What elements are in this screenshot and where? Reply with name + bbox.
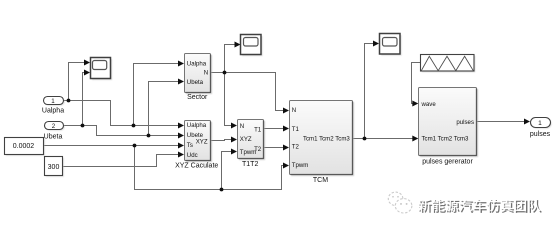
wire branch: Ubeta up to Sector input 2 <box>149 82 179 136</box>
outport 1 pulses <box>532 119 552 129</box>
wire T2: T1T2 to TCM <box>264 147 284 149</box>
svg-text:pulses: pulses <box>530 131 551 138</box>
watermark text 新能源汽车仿真团队 <box>419 200 542 213</box>
wire branch: Tcm up to Scope2 <box>365 44 374 139</box>
wire branch: N down to T1T2 input N <box>225 73 232 126</box>
node junction J1 <box>67 99 71 103</box>
svg-text:T2: T2 <box>254 146 262 153</box>
wire pulses: pulses gererator to outport <box>477 121 525 123</box>
wire XYZ: XYZ Caculate to T1T2 <box>210 140 232 141</box>
inport 2 Ubeta <box>46 123 65 131</box>
subsystem pulses gererator <box>420 89 478 157</box>
wire branch: Ts up to T1T2 Tpwm <box>222 152 232 190</box>
svg-text:Ualpha: Ualpha <box>187 61 207 68</box>
svg-text:XYZ Caculate: XYZ Caculate <box>175 162 218 169</box>
svg-text:N: N <box>292 107 296 114</box>
wire Ubeta: inport2 to XYZ Caculate <box>64 126 179 136</box>
svg-text:T1: T1 <box>292 126 300 133</box>
node junction J6 <box>220 188 224 192</box>
wire N: Sector to TCM <box>211 73 284 111</box>
node junction J4 <box>147 134 151 138</box>
node junction J5 <box>133 144 137 148</box>
watermark logo (chat bubbles) <box>388 192 412 213</box>
svg-text:1: 1 <box>538 120 542 127</box>
wire branch: Ts down and across to TCM Tpwm <box>135 146 284 190</box>
repeating sequence triangle wave source <box>422 56 476 73</box>
scope Scope2 <box>381 35 402 56</box>
wire Ts: constant 0.0002 to XYZ Caculate <box>44 145 179 147</box>
svg-text:wave: wave <box>421 101 437 108</box>
node junction J7 <box>223 71 227 75</box>
svg-text:Ts: Ts <box>187 142 193 149</box>
svg-text:Ualpha: Ualpha <box>42 107 64 114</box>
wire Tcm: TCM to pulses gererator <box>353 138 413 140</box>
wire branch: N up to Scope1 <box>225 45 236 73</box>
constant 300 <box>46 158 64 177</box>
svg-text:TCM: TCM <box>313 177 328 184</box>
scope Scope (dual input) <box>92 59 112 80</box>
wire T1: T1T2 to TCM <box>264 128 284 130</box>
node junction J2 <box>132 124 136 128</box>
wire branch: Ualpha up to Sector input 1 <box>134 64 179 126</box>
svg-text:XYZ: XYZ <box>196 139 208 146</box>
svg-text:XYZ: XYZ <box>240 136 252 143</box>
svg-text:pulses gererator: pulses gererator <box>422 158 473 165</box>
svg-text:0.0002: 0.0002 <box>13 143 35 150</box>
node junction J8 <box>363 137 367 141</box>
wire wave: triangle source to pulses gererator <box>412 63 421 104</box>
wire branch: Ubeta up to Scope input 2 <box>83 73 85 126</box>
subsystem XYZ Caculate <box>186 122 212 162</box>
svg-text:T2: T2 <box>292 144 300 151</box>
svg-text:Ubeta: Ubeta <box>44 134 63 141</box>
constant 0.0002 <box>6 139 45 156</box>
wire Ualpha: inport1 to XYZ Caculate <box>64 101 179 126</box>
svg-text:pulses: pulses <box>456 119 474 126</box>
svg-text:Ualpha: Ualpha <box>187 122 207 129</box>
svg-text:Ubeta: Ubeta <box>187 79 204 86</box>
svg-text:300: 300 <box>48 164 60 171</box>
inport 1 Ualpha <box>45 98 65 106</box>
wire Udc: constant 300 to XYZ Caculate <box>63 155 179 167</box>
svg-text:N: N <box>204 70 208 77</box>
svg-text:T1: T1 <box>254 126 262 133</box>
svg-text:1: 1 <box>51 98 55 105</box>
svg-text:Tcm1 Tcm2 Tcm3: Tcm1 Tcm2 Tcm3 <box>303 135 350 142</box>
subsystem TCM <box>291 102 354 176</box>
svg-text:T1T2: T1T2 <box>242 161 258 168</box>
subsystem Sector <box>186 55 212 94</box>
subsystem T1T2 <box>239 121 265 160</box>
scope Scope1 <box>242 36 263 56</box>
svg-text:Tpwm: Tpwm <box>292 162 309 169</box>
svg-text:2: 2 <box>52 123 56 130</box>
svg-text:N: N <box>240 123 244 130</box>
svg-text:Udc: Udc <box>187 152 198 159</box>
svg-text:Sector: Sector <box>187 94 208 101</box>
wire branch: Ualpha junction up to Scope input 1 <box>69 63 85 101</box>
node junction J3 <box>81 124 85 128</box>
svg-text:Tcm1 Tcm2 Tcm3: Tcm1 Tcm2 Tcm3 <box>422 136 469 143</box>
